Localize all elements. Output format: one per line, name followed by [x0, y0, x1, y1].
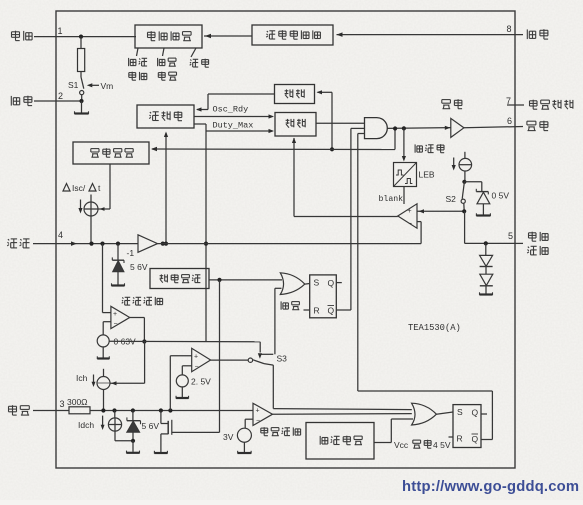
summing node circle	[84, 202, 98, 216]
tick to label startup	[191, 48, 196, 57]
wire Duty_Max oscillator to logic2	[194, 116, 273, 118]
node pin1 junction	[79, 35, 83, 39]
svg-text:http://www.go-gddq.com: http://www.go-gddq.com	[402, 479, 579, 495]
wire S3 line to OR2 top input	[273, 409, 412, 410]
soft start current source	[464, 152, 466, 159]
block oscillator (zhen-dang-qi)	[137, 105, 194, 128]
wire pin3 to buffer	[90, 410, 253, 412]
svg-text:Isc/: Isc/	[72, 183, 86, 193]
pin 7 label HV spacer (gao-ya-jian-xi)	[530, 100, 538, 102]
label delta-Isc/delta-t	[63, 184, 70, 192]
svg-text:4 5V: 4 5V	[433, 440, 451, 450]
wire over-temp to OR2	[374, 442, 391, 444]
ground of 0.63V	[102, 347, 104, 358]
svg-text:R: R	[314, 306, 320, 316]
pin 2 label GND (jie-di)	[10, 96, 12, 106]
zener 5.6V on pin3	[131, 408, 135, 412]
OR gate protect latch	[412, 403, 437, 425]
wire startup source to power mgmt	[204, 35, 252, 37]
svg-text:4: 4	[58, 230, 63, 240]
wire LEB to blank comparator	[403, 187, 405, 205]
svg-text:Vm: Vm	[101, 81, 114, 91]
wire slope comp output into summing node	[109, 164, 111, 209]
wire pin4 control line left segment	[33, 243, 138, 245]
wire 0.63V reference line	[109, 340, 260, 343]
svg-text:1: 1	[58, 26, 63, 36]
svg-text:Duty_Max: Duty_Max	[213, 121, 254, 131]
wire oscillator jog to logic2 lower input	[194, 123, 206, 125]
svg-text:R: R	[457, 434, 463, 444]
mosfet discharge	[159, 408, 163, 412]
wire S3 blade down to protect-detect OR line	[272, 365, 274, 409]
svg-text:+: +	[113, 311, 117, 318]
svg-text:Osc_Rdy: Osc_Rdy	[213, 105, 249, 115]
svg-text:Q: Q	[472, 434, 479, 444]
svg-text:2. 5V: 2. 5V	[191, 377, 211, 387]
block logic 1 (luo-ji)	[275, 85, 315, 104]
wire pin8 to startup source	[337, 34, 524, 36]
wire S2 node down to pin5 line	[464, 211, 466, 243]
wire stub above summing node	[90, 195, 92, 203]
wire logic2 to AND input1	[316, 122, 365, 124]
node control junction a	[100, 242, 104, 246]
diode clamp D2	[485, 267, 487, 275]
block LEB leading edge blanking	[394, 163, 417, 187]
label under-voltage (qian-ya)	[157, 58, 159, 66]
label under voltage (qian-ya)	[280, 301, 282, 309]
wire FF2 Qbar to AND input3	[358, 133, 365, 135]
label protect detect (bao-hu-jian-ce)	[261, 427, 268, 429]
svg-text:−: −	[195, 364, 199, 371]
pin 3 label Protect (bao-hu)	[9, 405, 17, 407]
wire vertical feedback to logic1	[331, 92, 333, 149]
ground below S1	[81, 101, 83, 113]
wire comparator output to S3	[211, 359, 249, 361]
wire AND output to driver	[387, 127, 450, 130]
wire summing node to control line	[90, 216, 92, 244]
wire POR output	[209, 279, 282, 281]
node buffer output junction	[161, 242, 165, 246]
label protect (bao-hu)	[158, 72, 165, 74]
svg-text:8: 8	[507, 24, 512, 34]
comparator blank (points left)	[398, 204, 417, 228]
source 2.5V	[176, 375, 188, 387]
resistor internal supply	[78, 49, 85, 72]
node AND output junction a	[393, 126, 397, 130]
buffer protect detect	[253, 403, 273, 425]
label startup (qi-dong)	[190, 60, 191, 61]
source 0.63V	[97, 335, 109, 347]
wire arrow into logic1 right	[318, 91, 333, 93]
wire buffer minus to 3V	[245, 418, 253, 420]
node Ich junction on pin3 line	[101, 408, 105, 412]
pin 5 stub	[515, 242, 523, 244]
flip flop FF2	[453, 405, 481, 448]
wire OR to FF1 S	[305, 283, 310, 286]
label control detect (kong-zhi-jian-ce)	[122, 297, 123, 298]
node S2 bottom junction	[462, 209, 466, 213]
block logic 2 (luo-ji)	[275, 113, 316, 137]
label internal (nei-bu)	[128, 58, 130, 66]
wire FF2 R stub	[449, 436, 454, 438]
svg-text:2: 2	[58, 91, 63, 101]
svg-text:Q: Q	[472, 408, 479, 418]
ground of diode clamp	[485, 286, 487, 294]
node control detect junction to comparator	[168, 408, 172, 412]
wire FF1 Qbar to AND	[336, 309, 351, 311]
svg-text:blank: blank	[379, 194, 404, 204]
wire driver output to pin6	[464, 127, 523, 128]
tick to label UVLO	[163, 48, 165, 56]
node 0.63V line junction	[142, 339, 146, 343]
svg-text:Q: Q	[328, 306, 335, 316]
ground of 3V	[243, 442, 245, 452]
opamp control detect	[111, 306, 130, 328]
wire FF1 R stub	[304, 309, 310, 311]
svg-text:5: 5	[508, 231, 513, 241]
pin 1 label Vcc (dian-yuan)	[12, 31, 20, 33]
wire S3 up to OR input	[274, 288, 276, 354]
svg-text:LEB: LEB	[419, 170, 435, 180]
diode clamp D1	[485, 243, 487, 255]
wire blank comparator output to logic2	[294, 216, 398, 218]
svg-text:6: 6	[507, 116, 512, 126]
wire AND output down to feedback line	[394, 129, 396, 150]
wire junction down to Ich arrow	[144, 342, 146, 384]
svg-text:Q: Q	[328, 278, 335, 288]
wire opamp output down to 0.63V line	[130, 317, 145, 319]
svg-text:3V: 3V	[223, 432, 234, 442]
node summing-control junction	[89, 242, 93, 246]
svg-text:S: S	[314, 278, 320, 288]
block power-on reset (shang-dian-fu-wei)	[150, 269, 209, 289]
node zener-Idch junction	[131, 439, 135, 443]
wire feedback line into slope comp	[152, 148, 395, 151]
node feedback junction	[330, 147, 334, 151]
svg-text:S2: S2	[446, 194, 457, 204]
wire blank plus input from S2 node	[418, 210, 465, 212]
node osc feed junction	[164, 242, 168, 246]
source Idch	[112, 408, 116, 412]
svg-text:5 6V: 5 6V	[130, 262, 148, 272]
svg-text:TEA1530(A): TEA1530(A)	[408, 323, 461, 333]
wire pin2	[34, 100, 82, 102]
wire FF1 Qbar to AND input2	[351, 127, 365, 129]
node control junction b	[116, 242, 120, 246]
label soft start (ruan-qi-dong)	[414, 144, 416, 152]
wire pin1	[34, 36, 136, 38]
wire vertical control to logic2	[205, 124, 207, 342]
arrow soft start direction	[453, 158, 455, 167]
block power management (dian-yuan-guan-li)	[135, 25, 202, 48]
wire Osc_Rdy from logic1 to oscillator	[208, 93, 275, 95]
wire control line main segment	[158, 243, 422, 245]
svg-text:+: +	[256, 408, 260, 415]
svg-text:Ich: Ich	[76, 373, 88, 383]
pin 7 stub	[507, 104, 524, 106]
block startup current source (qi-dong-dian-liu-yuan)	[252, 25, 333, 45]
comparator 2.5V	[192, 348, 211, 371]
svg-text:S: S	[457, 407, 463, 417]
svg-text:−: −	[408, 221, 412, 228]
block over temperature protect (chao-wen-bao-hu)	[306, 423, 374, 460]
pin 8 label GND (jie-di)	[526, 29, 528, 39]
wire pin5 current sense	[465, 242, 515, 244]
label supply (dian-yuan)	[129, 72, 136, 74]
wire POR down to mosfet gate	[219, 280, 221, 433]
wire buffer output feed to oscillator	[165, 133, 167, 244]
OR gate UV	[280, 273, 305, 295]
node soft start junction	[462, 180, 466, 184]
svg-text:+: +	[408, 208, 412, 215]
wire buffer output to OR2	[273, 413, 412, 416]
zener 5.6V on control pin	[117, 244, 119, 261]
node pin5 junction	[484, 241, 488, 245]
wire control to detector opamp plus	[102, 244, 104, 313]
svg-text:5 6V: 5 6V	[142, 421, 160, 431]
wire 2.5V source to minus	[182, 365, 191, 367]
wire mosfet gate to POR	[172, 431, 220, 433]
flip flop FF1	[310, 275, 337, 318]
tick to label internal supply	[137, 48, 139, 56]
wire to zener 0.5V	[464, 181, 481, 183]
zener 0.5V	[476, 191, 488, 193]
ground of 2.5V	[181, 387, 183, 397]
source Ich	[103, 369, 105, 377]
svg-text:0 5V: 0 5V	[492, 191, 510, 201]
node control-logic2 junction	[204, 242, 208, 246]
wire into Ich source	[110, 382, 144, 384]
ground of Idch branch	[132, 441, 134, 452]
wire S3 top line to OR input	[261, 353, 274, 355]
wire pin3	[33, 410, 69, 412]
block slope compensation (xie-lu-bu-chang)	[73, 142, 149, 164]
svg-text:300Ω: 300Ω	[67, 397, 88, 407]
svg-text:3: 3	[60, 399, 65, 409]
wire up to 2.5V comparator plus	[169, 356, 171, 411]
wire FF1 Q stub	[336, 282, 342, 284]
wire opamp minus to 0.63V	[103, 321, 111, 323]
svg-text:-1: -1	[127, 248, 135, 258]
label Vm with arrow	[87, 83, 93, 87]
svg-text:S3: S3	[277, 354, 288, 364]
node AND output junction b	[402, 126, 406, 130]
svg-text:−: −	[114, 321, 118, 328]
AND gate main PWM	[365, 118, 388, 139]
switch S3	[248, 358, 252, 362]
wire 0.63V line corner down to S3 contact	[259, 342, 261, 353]
IC outline border TEA1530	[56, 11, 515, 468]
node POR junction	[217, 278, 221, 282]
node pin2 junction	[79, 99, 83, 103]
pin 4 label Control (kong-zhi)	[8, 239, 9, 240]
wire AND output to LEB	[403, 128, 405, 159]
driver amplifier triangle	[451, 118, 464, 137]
pin 6 label Driver (qu-dong)	[527, 120, 536, 122]
pin 5 label current sense line2 (jian-ce)	[528, 247, 529, 248]
svg-text:S1: S1	[68, 80, 79, 90]
wire FF2 Qbar feedback to AND	[481, 439, 492, 441]
wire OR2 to FF2 S	[436, 412, 453, 414]
svg-text:Idch: Idch	[78, 420, 94, 430]
buffer -1 amplifier	[138, 235, 158, 253]
arrow current direction at summing node	[80, 200, 82, 210]
source 3V	[237, 428, 251, 442]
wire blank minus to control line	[417, 221, 421, 223]
svg-text:+: +	[194, 354, 198, 361]
wire FF2 Q stub	[481, 413, 487, 415]
label driver (qu-dong) above triangle	[442, 99, 451, 101]
pin 5 label current sense line1 (dian-liu)	[529, 232, 537, 234]
svg-text:Vcc: Vcc	[394, 440, 409, 450]
svg-text:−: −	[256, 418, 260, 425]
